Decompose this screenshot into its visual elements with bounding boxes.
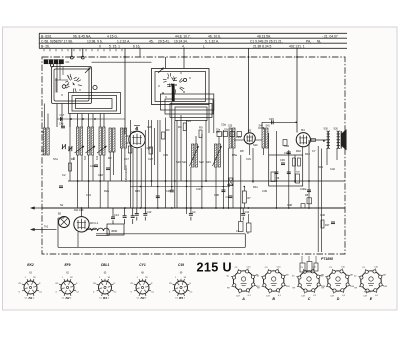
trimmer C10 — [68, 146, 72, 151]
capacitor C45 — [262, 117, 297, 128]
IF core arrow 2 — [213, 146, 222, 166]
wire HT feed right-2 — [296, 48, 298, 132]
svg-text:C35: C35 — [214, 193, 219, 197]
svg-text:C43: C43 — [147, 210, 152, 214]
resistor R7b — [242, 191, 251, 203]
svg-text:B5: B5 — [179, 296, 183, 300]
svg-text:215: 215 — [197, 260, 219, 274]
loudspeaker — [341, 130, 346, 151]
svg-text:21.89 8.34.5: 21.89 8.34.5 — [253, 45, 271, 49]
resistor R7 — [216, 130, 242, 137]
svg-text:C40a: C40a — [300, 187, 307, 191]
svg-text:R11: R11 — [253, 185, 258, 189]
wire HT feed mid — [124, 48, 126, 134]
svg-text:1.2.32.A,: 1.2.32.A, — [117, 39, 130, 43]
svg-text:R10: R10 — [296, 149, 301, 153]
svg-text:C: C — [308, 297, 311, 301]
coil-pack box 2 — [72, 96, 117, 112]
capacitor C4 — [189, 208, 196, 221]
output transformer S26 — [334, 128, 340, 149]
svg-text:L: L — [203, 45, 205, 49]
svg-text:CY1: CY1 — [139, 263, 146, 267]
electrolytic C13 — [131, 208, 135, 224]
tube B3 EF9 — [244, 128, 255, 144]
tuning arrow — [85, 68, 91, 74]
socket diagram B — [257, 266, 291, 301]
svg-text:S1b: S1b — [253, 143, 258, 147]
wire top bus link — [92, 61, 152, 63]
svg-text:R12: R12 — [305, 152, 310, 156]
wire bus y186 — [130, 186, 230, 188]
osc shield box outer — [152, 69, 210, 105]
mains lead L — [31, 207, 43, 210]
svg-text:R4: R4 — [178, 125, 182, 129]
wire coil stub b — [81, 114, 83, 128]
capacitor C2 — [59, 186, 63, 188]
wire coil stub f — [103, 114, 105, 128]
svg-text:C41: C41 — [284, 151, 289, 155]
svg-text:PT1895: PT1895 — [321, 257, 333, 261]
svg-text:S30: S30 — [324, 128, 329, 131]
wire coil stub d — [92, 114, 94, 128]
svg-text:13.98, 9 6,: 13.98, 9 6, — [87, 39, 103, 43]
svg-text:5, 1.32.A,: 5, 1.32.A, — [205, 39, 219, 43]
tube base diagram B4 CY1 — [131, 263, 155, 300]
svg-text:Th2: Th2 — [44, 226, 49, 229]
socket diagram D — [321, 266, 355, 301]
svg-text:C48: C48 — [287, 203, 292, 207]
detector sub-box — [269, 155, 303, 186]
terminal earth — [81, 56, 84, 59]
wire tuner drop 2 — [61, 104, 63, 128]
capacitor C44 — [241, 208, 250, 221]
resistor R16 — [321, 220, 330, 228]
svg-text:C31: C31 — [246, 157, 251, 161]
coil S22/S23 IF1b — [215, 144, 221, 167]
wire coil stub a — [77, 114, 79, 128]
wire rectifier cathode down — [77, 232, 79, 247]
svg-text:S7a: S7a — [53, 157, 58, 161]
svg-text:C5a: C5a — [221, 123, 226, 127]
label S40 — [259, 125, 271, 128]
socket diagram C — [292, 266, 326, 301]
capacitor C15 — [106, 168, 110, 170]
svg-text:SPERRKREIS: SPERRKREIS — [124, 165, 128, 182]
capacitor C41 — [284, 151, 291, 155]
wire tube B1 top — [134, 126, 140, 132]
svg-text:29.5.41,: 29.5.41, — [158, 39, 170, 43]
svg-text:B- 26,: B- 26, — [41, 45, 50, 49]
svg-text:B4: B4 — [141, 296, 145, 300]
svg-text:R1: R1 — [71, 157, 75, 161]
svg-text:402.131. 1: 402.131. 1 — [289, 45, 305, 49]
coil-pack box 3 — [76, 99, 113, 109]
wire heater return lower — [58, 246, 245, 248]
capacitor C16a — [331, 222, 335, 224]
wire tuner internal a — [55, 67, 68, 93]
svg-text:C42: C42 — [330, 167, 335, 171]
svg-text:6 16,: 6 16, — [133, 45, 140, 49]
resistor R10 — [271, 158, 300, 183]
svg-text:4 15 G,: 4 15 G, — [107, 34, 118, 38]
resistor R12b — [283, 140, 287, 146]
coil core arrow 1 — [75, 146, 85, 153]
junction dots — [77, 180, 310, 209]
rectifier tube B4 CY2 — [74, 207, 89, 232]
coil S16/S17 — [121, 128, 127, 148]
coil core arrow 3 — [97, 146, 107, 153]
capacitor C37 — [274, 172, 278, 174]
wire earth lead-in — [82, 48, 84, 56]
resistor R3a — [149, 147, 153, 154]
resistor R5b crossed — [229, 178, 234, 186]
capacitor C4b — [59, 123, 65, 128]
barretter resistor — [86, 222, 109, 231]
svg-text:4500: 4500 — [111, 229, 118, 233]
svg-text:R17: R17 — [325, 224, 330, 227]
osc coil-pack box 2 — [165, 99, 213, 114]
capacitor C4c — [226, 195, 233, 199]
table column ticks — [44, 49, 122, 51]
svg-text:B4: B4 — [301, 128, 305, 132]
svg-text:NL: NL — [317, 39, 321, 43]
svg-text:- 21. 04.07: - 21. 04.07 — [322, 34, 338, 38]
service data table grid — [39, 33, 347, 48]
svg-text:S18: S18 — [131, 130, 136, 134]
svg-text:R13: R13 — [318, 165, 323, 169]
tuner shield box outer — [52, 67, 92, 104]
resistor R9 — [199, 130, 202, 138]
wire switch stem — [56, 64, 58, 93]
svg-text:C2: C2 — [62, 173, 66, 177]
svg-text:U: U — [223, 260, 232, 274]
capacitor C33 — [156, 196, 160, 198]
terminal T1 — [50, 64, 53, 67]
wire anode to OPT — [310, 140, 326, 142]
svg-text:W2-U-4: W2-U-4 — [90, 222, 99, 225]
capacitor C36 — [280, 158, 285, 165]
IF core arrow 1 — [190, 146, 199, 166]
wire power left — [58, 217, 64, 248]
osc coil-pack box 3 — [170, 104, 212, 118]
osc coil-pack box 1 — [161, 94, 214, 110]
svg-text:B1: B1 — [29, 296, 33, 300]
terminal aerial — [70, 56, 73, 59]
capacitor C40 — [307, 190, 311, 192]
svg-text:R4228: R4228 — [364, 292, 371, 294]
component value labels — [53, 119, 335, 217]
resistor R4a — [162, 132, 166, 139]
wire anode feed stub 1 — [139, 48, 141, 56]
wire anode feed stub 2 — [183, 48, 185, 68]
svg-text:R9: R9 — [199, 126, 203, 130]
svg-text:C32: C32 — [196, 187, 201, 191]
wire osc top stub — [165, 57, 167, 69]
band switch label block — [44, 60, 70, 65]
svg-text:5. 15. 1: 5. 15. 1 — [109, 45, 120, 49]
capacitor C16 — [90, 164, 98, 168]
trimmer circle T3 — [93, 85, 97, 89]
svg-text:2M: 2M — [285, 274, 288, 276]
svg-text:R3: R3 — [166, 128, 170, 132]
svg-text:CBL1: CBL1 — [101, 263, 110, 267]
svg-text:PA,: PA, — [306, 39, 311, 43]
svg-text:C1 9.049.29 26.21.21,: C1 9.049.29 26.21.21, — [250, 39, 283, 43]
tube base diagram B1 EK2 — [19, 263, 43, 300]
tuner shield box inner — [54, 69, 89, 101]
tube B1 EK2 — [129, 127, 145, 148]
chassis boundary (dash-dot border) — [42, 57, 345, 254]
wire barretter out — [96, 231, 109, 235]
svg-text:C19: C19 — [178, 263, 184, 267]
tube base diagram B2 EF9 — [56, 263, 80, 300]
tube base diagram B3 CBL1 — [93, 263, 117, 300]
label S8 S9 — [74, 155, 99, 160]
label C26 — [147, 147, 152, 150]
svg-text:R8: R8 — [240, 149, 244, 153]
wire S40 top stub — [258, 127, 264, 128]
capacitor C30 — [166, 189, 174, 193]
svg-text:B3: B3 — [103, 296, 107, 300]
coil S20/S21 IF1 — [192, 144, 198, 167]
svg-text:C18: C18 — [98, 173, 103, 177]
svg-text:C4: C4 — [192, 210, 196, 214]
svg-text:EK2: EK2 — [27, 263, 34, 267]
svg-text:C7: C7 — [312, 149, 316, 153]
tube B4 CBL — [296, 128, 310, 147]
wave-change switch S2 contacts — [158, 72, 190, 97]
resistor R0 — [301, 204, 305, 209]
svg-text:S41: S41 — [266, 125, 271, 128]
resistor block E — [236, 208, 251, 235]
resistor R5 — [183, 123, 186, 131]
svg-text:46, 10.6,: 46, 10.6, — [208, 34, 221, 38]
wire aerial lead-in — [71, 48, 73, 56]
socket diagram E — [354, 266, 388, 301]
scale lamp — [58, 213, 70, 228]
svg-text:C39: C39 — [262, 189, 267, 193]
label S6 — [41, 131, 45, 153]
svg-text:A: A — [241, 297, 245, 301]
padder capacitor block — [172, 84, 174, 101]
coil core arrow 2 — [86, 146, 96, 153]
resistor R4b — [128, 146, 132, 153]
svg-text:Ch: Ch — [66, 60, 70, 64]
coil S6/S7 — [43, 128, 49, 155]
resistor R1 — [69, 163, 72, 171]
coil S25 IF2 — [229, 128, 235, 148]
svg-text:S10: S10 — [85, 155, 87, 160]
label S25 — [228, 125, 233, 128]
svg-text:96, 8.45.NA,: 96, 8.45.NA, — [73, 34, 91, 38]
svg-text:C47: C47 — [60, 113, 65, 117]
trimmer circle T2 — [62, 85, 66, 89]
electrolytic C12 — [123, 208, 127, 224]
wave-change switch S1 contacts — [61, 74, 81, 96]
trimmer circle T4 — [183, 78, 186, 81]
wire tuner drop 3 — [69, 114, 71, 128]
coil S10/S11 — [88, 127, 94, 155]
capacitor C43 — [143, 208, 152, 221]
svg-text:C14: C14 — [114, 213, 119, 217]
resistor R8 — [305, 194, 312, 204]
osc coil-pack box 4 — [175, 107, 207, 121]
wire tube B1 grid stub — [126, 136, 129, 143]
dropper box 4500 — [107, 224, 124, 235]
svg-text:S12: S12 — [97, 155, 99, 160]
wire grid line C47 — [57, 118, 125, 120]
svg-text:S2a: S2a — [216, 130, 221, 132]
svg-text:C44: C44 — [244, 210, 249, 214]
capacitor C38 — [287, 172, 291, 174]
svg-text:B3: B3 — [248, 128, 252, 132]
wire AVC bus — [68, 180, 345, 182]
svg-text:S26: S26 — [334, 128, 339, 131]
svg-text:B: B — [272, 297, 275, 301]
svg-text:9: 9 — [99, 45, 101, 49]
svg-text:494 1/28: 494 1/28 — [74, 209, 84, 212]
socket diagram A — [227, 266, 261, 301]
svg-text:S/B: S/B — [296, 172, 300, 174]
svg-text:C-58, 9268257.17.98,: C-58, 9268257.17.98, — [41, 39, 73, 43]
osc shield box inner — [155, 72, 206, 102]
svg-text:45,: 45, — [149, 39, 154, 43]
coil S40/S41 IF2b — [262, 128, 268, 148]
svg-text:R2a: R2a — [104, 189, 109, 193]
svg-text:C46: C46 — [320, 213, 325, 217]
wire main HT bus — [42, 207, 345, 209]
svg-text:2M: 2M — [383, 274, 386, 276]
wire tuner drop 1 — [56, 104, 58, 128]
svg-text:4,: 4, — [182, 45, 185, 49]
wire S25 link — [234, 139, 244, 141]
osc tuning arrow — [158, 68, 164, 73]
wire D6-S40 link — [255, 139, 262, 141]
coil S8/S9 — [77, 127, 83, 155]
mains lead N — [31, 226, 49, 231]
output transformer S30 — [324, 128, 330, 149]
electrolytic C14 — [111, 208, 119, 224]
title 215 U — [197, 260, 232, 274]
svg-text:C16: C16 — [90, 164, 95, 168]
svg-text:C4b: C4b — [59, 123, 64, 126]
svg-text:B- 63/1: B- 63/1 — [41, 34, 52, 38]
svg-text:2M: 2M — [350, 274, 353, 276]
svg-text:S2b: S2b — [224, 130, 229, 132]
wire HT feed right-1 — [248, 48, 250, 132]
socket E code — [364, 292, 371, 294]
label sideways SPERRKREIS — [124, 165, 128, 182]
trimmer C9 — [62, 144, 66, 149]
resistor R11 — [298, 158, 301, 166]
coil S12/S13 — [99, 127, 105, 155]
socket C harness — [300, 256, 318, 272]
tube base diagram B5 C19 — [169, 263, 193, 300]
svg-text:R15: R15 — [135, 189, 140, 193]
svg-text:48.13.5A,: 48.13.5A, — [257, 34, 271, 38]
svg-text:EF9: EF9 — [64, 263, 70, 267]
svg-text:C36: C36 — [280, 158, 285, 162]
svg-text:C30: C30 — [166, 189, 171, 193]
svg-text:19.24.34,: 19.24.34, — [174, 39, 188, 43]
svg-text:S40: S40 — [259, 125, 264, 128]
wire coil stub c — [88, 114, 90, 128]
wire power inner — [47, 229, 96, 231]
svg-text:S23: S23 — [206, 160, 211, 164]
capacitor C47 — [60, 113, 65, 121]
capacitor C28 — [221, 190, 225, 192]
svg-text:S25: S25 — [228, 125, 233, 128]
wire coil stub e — [99, 114, 101, 128]
svg-text:B2: B2 — [66, 296, 70, 300]
coil-pack box 1 — [69, 93, 121, 114]
wire heater return upper — [96, 233, 245, 235]
wire switch stem 2 — [59, 64, 61, 80]
wire vertical runs — [44, 100, 337, 252]
capacitor C1a — [135, 208, 139, 221]
wire heater return right — [244, 234, 246, 248]
resistor R14 — [311, 139, 316, 142]
drawing number PT1895 — [321, 257, 333, 261]
svg-text:D: D — [337, 297, 340, 301]
wire R7 link — [244, 186, 246, 208]
svg-text:C27: C27 — [148, 157, 153, 161]
service data table text — [41, 34, 338, 48]
coil S14/S15 — [109, 128, 115, 152]
svg-text:44.8, 10.7,: 44.8, 10.7, — [175, 34, 191, 38]
